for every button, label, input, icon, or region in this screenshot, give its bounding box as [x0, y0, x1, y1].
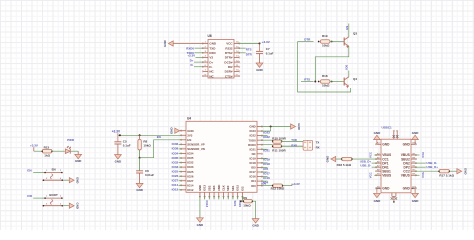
svg-text:GND: GND [115, 159, 121, 163]
wire U6 RTS# [239, 47, 246, 49]
svg-text:SD1: SD1 [233, 201, 237, 207]
svg-text:A12: A12 [412, 142, 416, 145]
ground right of LED [75, 151, 82, 163]
svg-text:1: 1 [46, 170, 48, 172]
wire U6 V3 [196, 56, 204, 58]
wire junction stub down [270, 127, 272, 132]
svg-text:IO0: IO0 [345, 65, 349, 70]
svg-text:IO14: IO14 [172, 183, 179, 187]
svg-text:TXD: TXD [209, 46, 216, 50]
svg-text:Q4: Q4 [353, 77, 357, 81]
svg-text:SD3: SD3 [212, 185, 216, 191]
svg-text:VCC: VCC [369, 152, 373, 158]
capacitor C7 0.1uF [256, 44, 274, 56]
wire VBUS right lower [415, 174, 419, 176]
svg-text:C7: C7 [266, 47, 270, 51]
svg-text:DTR: DTR [304, 38, 311, 42]
svg-text:DTR#: DTR# [225, 56, 233, 60]
node junction on GND wire [270, 126, 272, 128]
svg-text:+3.3V: +3.3V [112, 130, 121, 134]
svg-text:RXD0: RXD0 [186, 46, 194, 50]
svg-text:EN: EN [52, 168, 56, 172]
resistor R13 1k [42, 145, 52, 157]
svg-text:IO25: IO25 [187, 170, 194, 174]
ground below C6 [139, 173, 141, 183]
svg-text:R18 5.1kΩ: R18 5.1kΩ [337, 163, 352, 167]
svg-text:RTS: RTS [304, 78, 310, 82]
wire U4 GND right to ground [261, 126, 290, 128]
ground below R9 [252, 219, 259, 228]
capacitor C5 0.1uF [114, 135, 130, 147]
wire R11 to header [282, 145, 304, 147]
wire Q4 collector to IO0 [348, 71, 350, 77]
svg-text:VCC: VCC [421, 172, 425, 178]
svg-text:1kΩ: 1kΩ [44, 153, 50, 157]
svg-text:IO18: IO18 [250, 161, 257, 165]
svg-text:CMD: CMD [217, 185, 221, 191]
ground right of BOOT switch [69, 203, 74, 208]
wire gnd flag to U4 [180, 130, 182, 132]
svg-text:IO19: IO19 [263, 158, 270, 162]
wire U6 RXD [195, 52, 204, 54]
wire IO2 pin to R9 [241, 196, 243, 201]
wire EN switch to ground [63, 179, 70, 181]
ground (right-pointing) at U4 GND [291, 124, 296, 129]
wire Q3 collector to EN [348, 24, 350, 37]
svg-text:IO33: IO33 [172, 165, 179, 169]
wire U6 VCC to +3.3V [239, 43, 260, 45]
wire R12 to +3.3V [283, 185, 292, 187]
svg-text:10kΩ: 10kΩ [243, 203, 251, 207]
wire CC1 to R18 [352, 158, 377, 160]
svg-text:GND: GND [463, 168, 467, 174]
svg-text:NC: NC [252, 152, 256, 156]
svg-text:IO25: IO25 [172, 169, 179, 173]
transistor Q4 [344, 77, 357, 88]
svg-text:IO15: IO15 [236, 184, 240, 191]
wire RTS rail [301, 81, 314, 83]
svg-text:IO21: IO21 [263, 149, 270, 153]
resistor R17 5.1k [439, 170, 455, 178]
wire BOOT switch to ground [63, 205, 70, 207]
wire EN node to U4 EN pin [140, 140, 182, 158]
wire VBUS left lower [374, 174, 377, 176]
svg-text:GND: GND [412, 199, 420, 203]
resistor R11 100R [272, 145, 286, 153]
wire R17 to ground [449, 170, 457, 172]
svg-text:D+: D+ [209, 60, 213, 64]
resistor R12 10k [271, 184, 285, 191]
svg-text:PWR: PWR [67, 138, 75, 142]
svg-text:3: 3 [46, 203, 48, 205]
svg-text:0.1uF: 0.1uF [266, 52, 274, 56]
svg-text:+3.3V: +3.3V [292, 182, 300, 186]
svg-text:R232: R232 [225, 46, 233, 50]
svg-text:GND: GND [256, 68, 262, 72]
svg-text:IO34: IO34 [172, 151, 179, 155]
wire U6 D- [194, 66, 203, 68]
node junction at U6 VCC [259, 43, 261, 45]
resistor R10 100R [272, 136, 286, 143]
svg-text:IO2: IO2 [240, 186, 244, 191]
node labels U4 left IO pins [172, 142, 182, 192]
svg-text:IO14: IO14 [187, 183, 194, 187]
svg-text:IO16: IO16 [250, 175, 257, 179]
svg-text:TX: TX [316, 140, 320, 144]
svg-text:IO0: IO0 [27, 194, 32, 198]
svg-text:GND: GND [403, 143, 411, 147]
wire U4 bottom GND pin down [199, 196, 201, 218]
wire DTR rail [298, 41, 314, 43]
wire R19 to Q3 base [330, 41, 344, 43]
svg-text:EN: EN [345, 26, 349, 30]
svg-text:GND: GND [252, 224, 258, 228]
wire IO0 to switch [33, 197, 44, 199]
svg-text:GND: GND [76, 202, 80, 208]
svg-text:R11 100R: R11 100R [272, 148, 286, 152]
header H1 TX/RX jumper [303, 140, 313, 150]
svg-text:D-: D- [209, 65, 212, 69]
transistor SW-EN push button [43, 168, 64, 182]
svg-text:SENSOR_VP: SENSOR_VP [187, 142, 204, 146]
svg-text:IO26: IO26 [172, 174, 179, 178]
svg-text:IO32: IO32 [187, 161, 194, 165]
svg-text:GND: GND [209, 42, 217, 46]
svg-text:IO0: IO0 [251, 184, 256, 188]
svg-text:RX: RX [316, 145, 320, 149]
svg-text:10kΩ: 10kΩ [322, 44, 330, 48]
resistor R19 10k [320, 34, 330, 47]
wire U6 D+ [194, 61, 203, 63]
svg-text:SD1: SD1 [231, 185, 235, 191]
svg-text:IO16: IO16 [263, 176, 270, 180]
svg-text:VCC: VCC [369, 172, 373, 178]
IC U4 ESP32-WROOM module [180, 117, 262, 198]
svg-text:EN: EN [157, 135, 161, 139]
svg-text:+3.3V: +3.3V [262, 40, 270, 44]
svg-text:GND: GND [412, 131, 420, 135]
svg-text:IO22: IO22 [250, 134, 257, 138]
svg-text:10kΩ: 10kΩ [143, 144, 151, 148]
svg-text:GND: GND [197, 223, 203, 227]
svg-text:IO39: IO39 [172, 147, 179, 151]
wire Q3 emitter to RTS rail [315, 46, 349, 81]
svg-text:IO22: IO22 [263, 135, 270, 139]
svg-text:1: 1 [46, 196, 48, 198]
svg-text:RTS: RTS [246, 48, 252, 52]
svg-text:0.01uF: 0.01uF [145, 173, 154, 177]
svg-text:SD2: SD2 [207, 185, 211, 191]
svg-text:+3.3V: +3.3V [187, 54, 195, 58]
svg-text:U6: U6 [208, 34, 212, 38]
svg-text:DSR#: DSR# [225, 70, 233, 74]
ground below C5 [117, 144, 119, 155]
ground below U4 pin GND bottom [197, 218, 204, 227]
svg-text:3: 3 [46, 178, 48, 180]
transistor SW-BOOT push button [43, 193, 64, 206]
wire R18 to ground [336, 158, 342, 160]
wire DP2 [415, 166, 426, 168]
svg-text:Q3: Q3 [353, 32, 357, 36]
wire EN to switch [33, 172, 44, 174]
ground above USB right GND [412, 131, 420, 144]
capacitor C6 0.1uF [136, 158, 154, 177]
wire IO23 [261, 130, 270, 132]
wire USB shield stubs top [393, 130, 399, 139]
svg-text:EN: EN [187, 138, 191, 142]
svg-text:4: 4 [60, 178, 62, 180]
svg-text:GND: GND [163, 39, 167, 47]
wire LED to ground [71, 150, 78, 152]
svg-text:IO12: IO12 [172, 188, 179, 192]
wire DP1 [372, 162, 377, 164]
svg-text:R17 5.1kΩ: R17 5.1kΩ [439, 173, 454, 177]
wire TXD0 to R10 [261, 139, 272, 141]
resistor R9 10k [243, 196, 252, 207]
svg-text:RTS#: RTS# [225, 51, 233, 55]
ground (left-pointing) at U6 pin1 [163, 39, 173, 47]
svg-text:10kΩ: 10kΩ [322, 84, 330, 88]
svg-text:VBUS: VBUS [401, 173, 411, 177]
svg-text:IO26: IO26 [187, 174, 194, 178]
svg-text:VBUS: VBUS [382, 173, 392, 177]
svg-text:BOOT: BOOT [49, 193, 58, 197]
svg-text:V3: V3 [209, 56, 213, 60]
svg-text:IO17: IO17 [250, 170, 257, 174]
svg-text:RXD: RXD [209, 51, 216, 55]
wire VBUS right [415, 154, 419, 156]
svg-text:IO12: IO12 [187, 188, 194, 192]
svg-text:+3.3V: +3.3V [30, 144, 38, 148]
svg-text:3V3: 3V3 [187, 133, 192, 137]
resistor R8 10k vertical [138, 135, 152, 157]
svg-text:USB_D-: USB_D- [360, 163, 371, 167]
svg-text:GND: GND [374, 131, 382, 135]
svg-text:IO35: IO35 [187, 156, 194, 160]
svg-text:GND: GND [374, 199, 382, 203]
svg-text:EN: EN [27, 168, 31, 172]
ground below C7 [256, 54, 263, 72]
svg-text:IO33: IO33 [187, 165, 194, 169]
resistor R18 10k [320, 74, 330, 87]
svg-text:GND: GND [297, 123, 301, 129]
svg-text:R19: R19 [322, 34, 328, 38]
svg-text:GND: GND [403, 186, 411, 190]
svg-text:DCD#: DCD# [224, 60, 232, 64]
svg-text:CLK: CLK [222, 185, 226, 191]
wire RXD0 to R11 [261, 144, 272, 146]
svg-text:D+: D+ [190, 58, 194, 62]
svg-text:IO19: IO19 [250, 156, 257, 160]
svg-text:VCC: VCC [421, 152, 425, 158]
svg-text:IO18: IO18 [263, 162, 270, 166]
svg-text:IO35: IO35 [172, 156, 179, 160]
node EN junction [139, 157, 141, 159]
ground below USB right GND [412, 188, 420, 203]
svg-text:IO32: IO32 [172, 160, 179, 164]
wire R9 to ground [252, 201, 255, 218]
ground above USB left GND [374, 131, 382, 144]
svg-text:IO0: IO0 [261, 182, 266, 186]
svg-text:R12 10kΩ: R12 10kΩ [271, 187, 285, 191]
svg-text:GND: GND [382, 143, 390, 147]
svg-text:0.1uF: 0.1uF [123, 144, 131, 148]
node labels U4 bottom pins [205, 196, 243, 207]
svg-text:SD0: SD0 [226, 185, 230, 191]
svg-text:RXD0: RXD0 [248, 143, 256, 147]
svg-text:IO23: IO23 [263, 130, 270, 134]
svg-text:SENSOR_VN: SENSOR_VN [187, 147, 205, 151]
node labels U4 right IO pins [261, 149, 270, 185]
wire U6 DTR# [239, 52, 246, 54]
wire CC2 to R17 [415, 170, 439, 172]
svg-text:U4: U4 [187, 117, 191, 121]
wire VBUS left [374, 154, 377, 156]
wire R13 to LED [52, 150, 65, 152]
wire U6 TXD [195, 47, 204, 49]
svg-text:IO5: IO5 [263, 167, 268, 171]
ground right of R17 [457, 169, 462, 174]
svg-text:USBC1: USBC1 [382, 125, 393, 129]
svg-text:R18: R18 [322, 74, 328, 78]
svg-text:CTS#: CTS# [225, 74, 233, 78]
wire R18 to Q4 base [330, 81, 344, 83]
svg-text:TXD: TXD [291, 138, 297, 142]
diode LED PWR [65, 138, 75, 154]
svg-text:IO21: IO21 [250, 147, 257, 151]
IC U6 CH340 USB-UART [202, 34, 240, 78]
svg-text:4: 4 [60, 203, 62, 205]
ground right of EN switch [69, 178, 74, 183]
svg-text:GND: GND [169, 127, 173, 135]
ground below USB left GND [374, 188, 382, 203]
wire DN1 [372, 166, 377, 168]
svg-text:IO23: IO23 [250, 129, 257, 133]
svg-text:GND: GND [249, 125, 255, 129]
svg-text:IO34: IO34 [187, 152, 194, 156]
ground flag at U4 pin GND left [169, 127, 179, 135]
wire DN2 [415, 162, 426, 164]
wire +3.3V to R13 [34, 150, 42, 152]
svg-text:IO27: IO27 [187, 179, 194, 183]
svg-text:R13: R13 [44, 145, 50, 149]
svg-text:D-: D- [190, 63, 193, 67]
wire IO0 to R12 [261, 185, 272, 187]
ground left of R18 [325, 155, 335, 163]
svg-text:GND: GND [136, 188, 142, 192]
svg-text:IO17: IO17 [263, 171, 270, 175]
svg-text:GND: GND [76, 177, 80, 183]
svg-text:RXD: RXD [291, 143, 297, 147]
svg-text:TXD0: TXD0 [248, 138, 256, 142]
svg-text:GND: GND [325, 155, 329, 163]
svg-text:RI#: RI# [228, 65, 233, 69]
svg-text:VCC: VCC [226, 42, 233, 46]
svg-text:IO13: IO13 [203, 184, 207, 191]
connector USBC1 USB-C receptacle [375, 125, 416, 192]
wire +3.3V rail to 3V3 pin [118, 134, 182, 136]
svg-text:IO27: IO27 [172, 179, 179, 183]
svg-text:GND: GND [187, 129, 193, 133]
svg-text:GND: GND [75, 159, 81, 163]
svg-text:IO5: IO5 [251, 166, 256, 170]
resistor R18 5.1k [337, 157, 352, 167]
wire U6 GND pin to ground [173, 43, 203, 45]
transistor Q3 [344, 32, 357, 49]
svg-text:GND: GND [198, 185, 202, 191]
svg-text:IO13: IO13 [205, 201, 209, 208]
wire USB shield stubs bottom [391, 193, 398, 203]
svg-text:DTR: DTR [246, 52, 253, 56]
svg-text:IO36: IO36 [172, 142, 179, 146]
svg-text:IO4: IO4 [251, 179, 256, 183]
svg-text:GND: GND [382, 186, 390, 190]
wire R10 to header [282, 141, 304, 143]
wire IO22 [261, 135, 267, 137]
svg-text:USB_D+: USB_D+ [426, 165, 438, 169]
